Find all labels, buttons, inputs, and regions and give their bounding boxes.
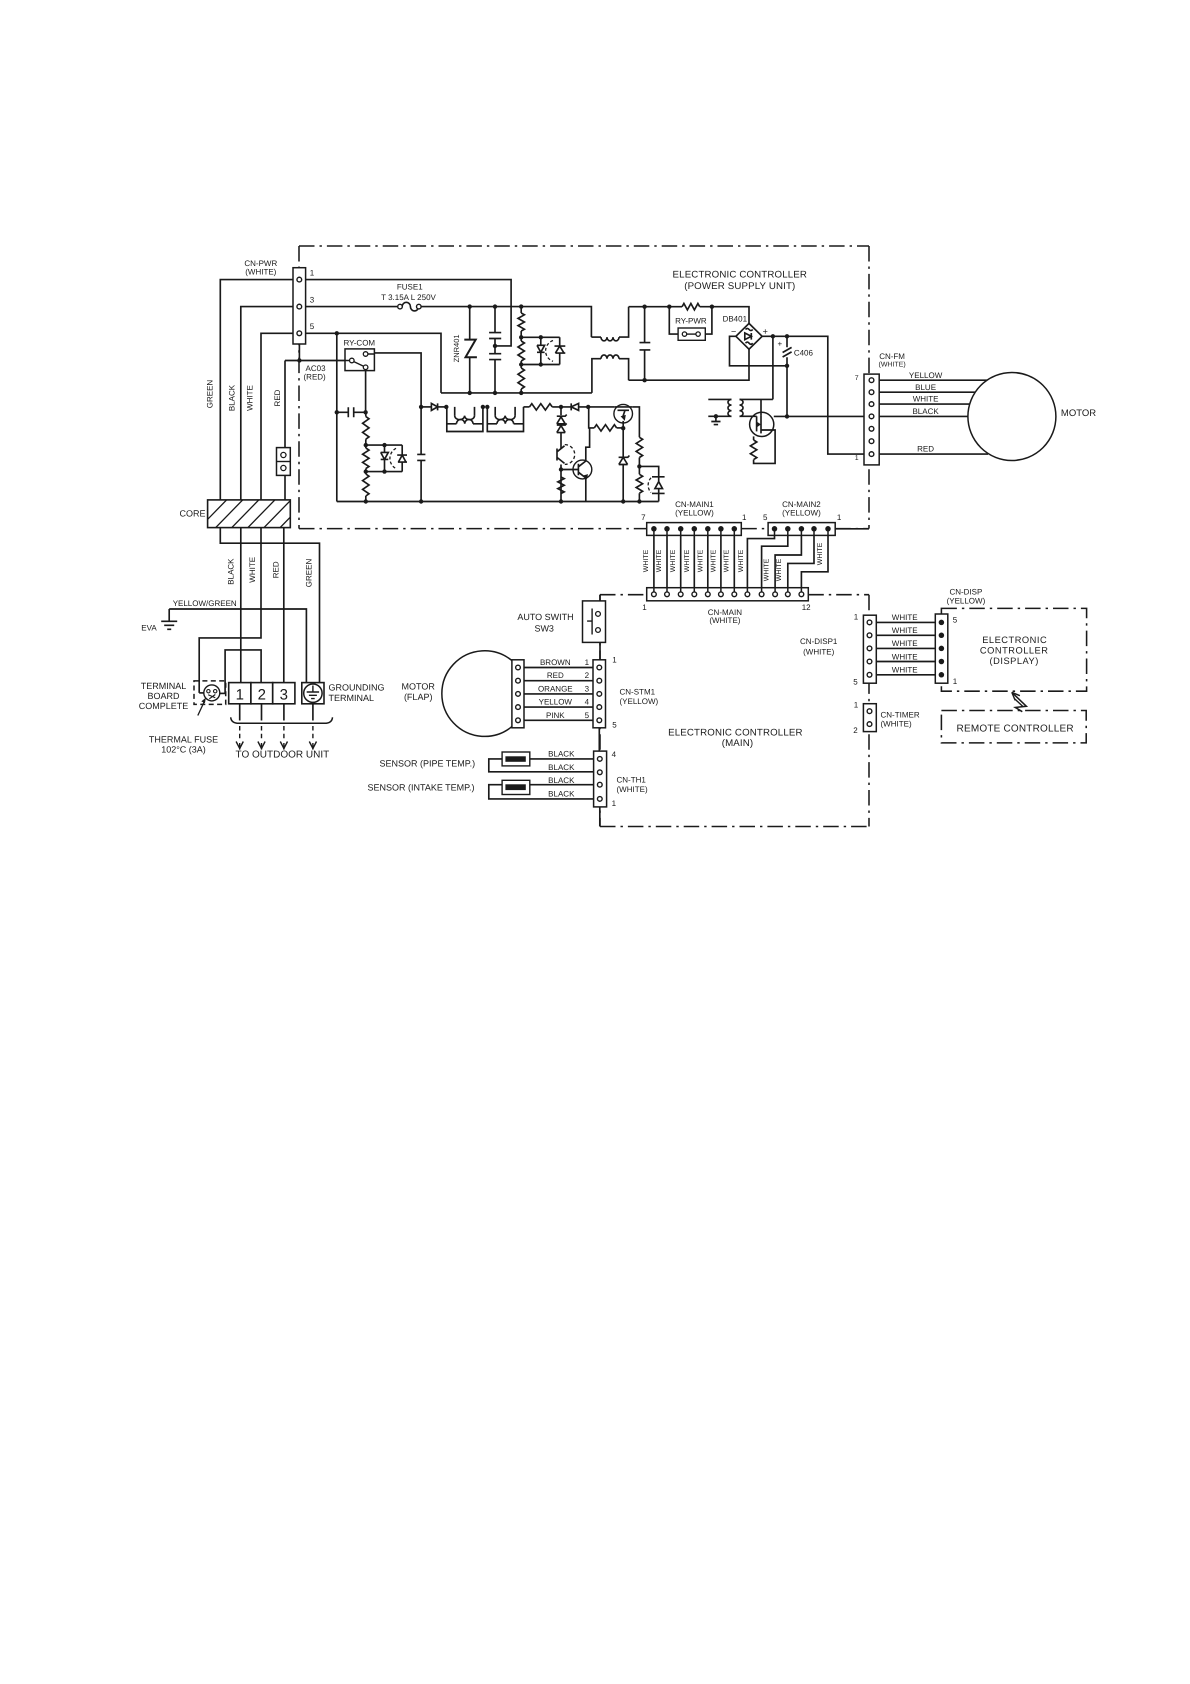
svg-text:DB401: DB401 (723, 315, 748, 324)
svg-text:BLACK: BLACK (228, 384, 237, 411)
svg-text:WHITE: WHITE (817, 542, 824, 565)
svg-text:WHITE: WHITE (913, 395, 939, 404)
svg-text:YELLOW: YELLOW (909, 371, 943, 380)
svg-text:FUSE1: FUSE1 (397, 282, 423, 291)
svg-text:WHITE: WHITE (643, 549, 650, 572)
svg-text:CN-TIMER: CN-TIMER (881, 710, 920, 719)
svg-text:BROWN: BROWN (540, 658, 571, 667)
svg-text:WHITE: WHITE (248, 557, 257, 583)
svg-text:(FLAP): (FLAP) (404, 692, 433, 702)
svg-text:WHITE: WHITE (684, 549, 691, 572)
svg-text:CN-TH1: CN-TH1 (617, 775, 647, 784)
svg-text:2: 2 (258, 686, 266, 703)
svg-text:CN-DISP: CN-DISP (949, 587, 982, 596)
svg-text:RED: RED (917, 445, 934, 454)
svg-text:ZNR401: ZNR401 (452, 334, 461, 362)
svg-text:WHITE: WHITE (892, 652, 918, 661)
svg-text:(YELLOW): (YELLOW) (947, 596, 986, 605)
svg-text:WHITE: WHITE (711, 549, 718, 572)
svg-text:5: 5 (612, 720, 617, 729)
svg-text:(POWER SUPPLY UNIT): (POWER SUPPLY UNIT) (684, 281, 795, 292)
svg-text:1: 1 (612, 799, 617, 808)
svg-text:1: 1 (953, 677, 958, 686)
svg-text:TERMINAL: TERMINAL (141, 681, 187, 691)
svg-text:THERMAL FUSE: THERMAL FUSE (149, 735, 218, 745)
svg-text:CN-STM1: CN-STM1 (620, 688, 656, 697)
svg-text:102°C (3A): 102°C (3A) (161, 745, 206, 755)
svg-text:WHITE: WHITE (738, 549, 745, 572)
svg-text:SENSOR (PIPE TEMP.): SENSOR (PIPE TEMP.) (379, 759, 475, 769)
svg-text:(DISPLAY): (DISPLAY) (990, 656, 1039, 666)
svg-text:RY-COM: RY-COM (344, 339, 376, 348)
svg-text:MOTOR: MOTOR (402, 681, 436, 691)
svg-text:WHITE: WHITE (892, 626, 918, 635)
svg-text:ELECTRONIC: ELECTRONIC (982, 635, 1047, 645)
svg-text:BLACK: BLACK (548, 790, 575, 799)
svg-text:(RED): (RED) (304, 373, 327, 382)
svg-text:SENSOR (INTAKE TEMP.): SENSOR (INTAKE TEMP.) (367, 783, 474, 793)
svg-text:T 3.15A L 250V: T 3.15A L 250V (381, 293, 436, 302)
svg-text:COMPLETE: COMPLETE (139, 701, 189, 711)
svg-text:(WHITE): (WHITE) (878, 361, 905, 369)
svg-text:BLACK: BLACK (548, 776, 575, 785)
svg-text:BOARD: BOARD (147, 691, 180, 701)
svg-text:1: 1 (612, 655, 617, 664)
svg-text:5: 5 (763, 513, 768, 522)
svg-text:BLACK: BLACK (912, 407, 939, 416)
svg-text:3: 3 (310, 295, 315, 304)
svg-text:REMOTE CONTROLLER: REMOTE CONTROLLER (957, 723, 1074, 734)
svg-text:1: 1 (310, 268, 315, 277)
svg-text:(MAIN): (MAIN) (722, 738, 754, 749)
svg-text:(YELLOW): (YELLOW) (620, 697, 659, 706)
svg-text:CN-FM: CN-FM (879, 352, 905, 361)
svg-text:1: 1 (855, 455, 859, 462)
svg-text:PINK: PINK (546, 711, 565, 720)
svg-text:5: 5 (585, 711, 590, 720)
svg-text:1: 1 (837, 513, 842, 522)
svg-text:BLACK: BLACK (548, 750, 575, 759)
svg-text:TERMINAL: TERMINAL (329, 693, 375, 703)
svg-text:(WHITE): (WHITE) (709, 616, 740, 625)
svg-text:YELLOW/GREEN: YELLOW/GREEN (173, 599, 237, 608)
svg-text:4: 4 (585, 698, 590, 707)
svg-text:SW3: SW3 (534, 623, 554, 633)
svg-text:WHITE: WHITE (246, 385, 255, 411)
svg-text:RED: RED (547, 671, 564, 680)
svg-text:(WHITE): (WHITE) (881, 720, 912, 729)
svg-text:BLACK: BLACK (226, 558, 235, 585)
svg-text:(WHITE): (WHITE) (803, 647, 834, 656)
svg-text:5: 5 (853, 677, 858, 686)
svg-text:BLACK: BLACK (548, 763, 575, 772)
svg-text:5: 5 (310, 322, 315, 331)
svg-text:3: 3 (585, 685, 590, 694)
svg-text:WHITE: WHITE (892, 613, 918, 622)
svg-text:(WHITE): (WHITE) (245, 268, 276, 277)
svg-text:CONTROLLER: CONTROLLER (980, 645, 1049, 655)
svg-text:5: 5 (953, 615, 958, 624)
svg-text:1: 1 (854, 700, 859, 709)
svg-text:YELLOW: YELLOW (539, 698, 573, 707)
svg-text:7: 7 (855, 375, 859, 382)
svg-text:CN-DISP1: CN-DISP1 (800, 637, 838, 646)
svg-text:1: 1 (854, 612, 859, 621)
svg-text:WHITE: WHITE (697, 549, 704, 572)
svg-text:2: 2 (853, 726, 858, 735)
svg-text:1: 1 (236, 686, 244, 703)
svg-text:(YELLOW): (YELLOW) (782, 509, 821, 518)
svg-text:(YELLOW): (YELLOW) (675, 509, 714, 518)
svg-text:1: 1 (642, 603, 647, 612)
svg-text:+: + (777, 340, 782, 349)
svg-text:AUTO SWITH: AUTO SWITH (517, 612, 573, 622)
svg-text:WHITE: WHITE (724, 549, 731, 572)
svg-text:RED: RED (272, 561, 281, 578)
svg-text:ORANGE: ORANGE (538, 685, 573, 694)
svg-text:12: 12 (802, 603, 811, 612)
svg-text:−: − (731, 326, 736, 336)
svg-text:RY-PWR: RY-PWR (675, 316, 707, 325)
svg-text:MOTOR: MOTOR (1061, 408, 1096, 419)
svg-text:(WHITE): (WHITE) (617, 785, 648, 794)
svg-text:RED: RED (273, 389, 282, 406)
svg-text:7: 7 (641, 513, 646, 522)
svg-text:2: 2 (585, 671, 590, 680)
svg-text:4: 4 (612, 750, 617, 759)
svg-text:ELECTRONIC CONTROLLER: ELECTRONIC CONTROLLER (673, 270, 808, 281)
svg-text:GROUNDING: GROUNDING (329, 683, 385, 693)
svg-text:3: 3 (280, 686, 288, 703)
svg-text:BLUE: BLUE (915, 383, 936, 392)
svg-text:CORE: CORE (179, 509, 205, 519)
svg-text:GREEN: GREEN (205, 380, 214, 409)
svg-text:WHITE: WHITE (656, 549, 663, 572)
svg-text:WHITE: WHITE (764, 558, 771, 581)
svg-text:WHITE: WHITE (892, 639, 918, 648)
svg-text:ELECTRONIC CONTROLLER: ELECTRONIC CONTROLLER (668, 728, 803, 739)
svg-text:GREEN: GREEN (305, 559, 314, 588)
svg-text:C406: C406 (794, 349, 814, 358)
svg-text:1: 1 (585, 658, 590, 667)
svg-text:WHITE: WHITE (670, 549, 677, 572)
svg-text:+: + (763, 326, 768, 336)
svg-text:EVA: EVA (141, 624, 157, 633)
svg-text:1: 1 (742, 513, 747, 522)
svg-text:WHITE: WHITE (892, 666, 918, 675)
svg-text:TO OUTDOOR UNIT: TO OUTDOOR UNIT (236, 750, 330, 761)
svg-text:WHITE: WHITE (776, 558, 783, 581)
